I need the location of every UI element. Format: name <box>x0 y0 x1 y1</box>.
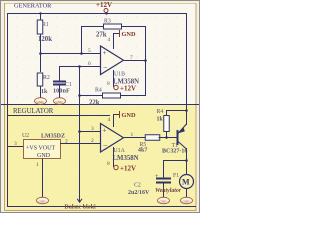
svg-text:U2: U2 <box>22 133 29 139</box>
svg-text:1: 1 <box>131 132 134 138</box>
junction pin3 U1A <box>78 130 81 133</box>
left rail wire <box>7 13 9 206</box>
wire R2 bottom to ground <box>40 86 42 99</box>
wire R6 bottom stub <box>166 132 168 138</box>
svg-text:R4: R4 <box>157 109 164 115</box>
junction R4 left <box>78 94 81 97</box>
svg-text:1k: 1k <box>157 117 164 123</box>
sensor U2 LM35DZ box <box>22 133 65 159</box>
svg-text:+12V: +12V <box>120 165 136 173</box>
U1B +12V power pin wire <box>113 70 115 87</box>
junction R6/+12V rail <box>185 109 188 112</box>
wire +VS pin to left rail <box>7 146 23 148</box>
wire feedback vertical <box>81 26 83 53</box>
svg-text:BC327-16: BC327-16 <box>162 149 187 155</box>
svg-text:REGULATOR: REGULATOR <box>13 108 54 115</box>
svg-text:27k: 27k <box>96 32 107 39</box>
svg-text:M: M <box>182 178 190 187</box>
svg-text:6: 6 <box>88 61 91 67</box>
svg-text:F1: F1 <box>173 173 179 179</box>
svg-text:C2: C2 <box>134 183 141 189</box>
junction output pin7 <box>144 59 147 62</box>
wire output vertical line <box>145 26 147 96</box>
wire pin6 from C1 to opamp <box>59 66 100 68</box>
svg-text:4: 4 <box>108 37 111 43</box>
ground port under motor <box>181 197 193 204</box>
resistor R2 <box>37 73 50 95</box>
svg-text:U1A: U1A <box>114 148 126 154</box>
right +12V rail wire <box>186 13 188 122</box>
+12V top rail wire <box>7 13 187 15</box>
svg-text:GND: GND <box>39 200 46 204</box>
svg-text:R1: R1 <box>42 22 49 28</box>
svg-text:Dalsze bloki: Dalsze bloki <box>65 205 97 211</box>
svg-text:8: 8 <box>107 81 110 87</box>
svg-text:R2: R2 <box>43 75 50 81</box>
svg-text:LM35DZ: LM35DZ <box>41 134 65 140</box>
ground port under C1 <box>54 98 66 105</box>
wire motor to ground <box>186 189 188 198</box>
wire R5 to base <box>159 137 178 139</box>
junction feedback on pin5 wire <box>80 52 83 55</box>
junction base/R6 <box>165 136 168 139</box>
resistor R4 <box>89 88 121 107</box>
wire R1 top <box>40 13 42 20</box>
motor M1 fan <box>155 173 194 194</box>
ground port under C2 <box>158 197 170 204</box>
wire U1A output <box>124 137 145 139</box>
svg-text:+VS VOUT: +VS VOUT <box>26 146 55 152</box>
wire R1 bottom to node <box>40 34 42 73</box>
wire triangle node vertical down <box>79 67 81 202</box>
yellow lower sheet area <box>4 104 197 211</box>
svg-text:3: 3 <box>91 126 94 132</box>
U1A GND power pin wire <box>113 114 119 127</box>
svg-text:22k: 22k <box>89 100 100 107</box>
svg-text:2u2/16V: 2u2/16V <box>128 190 150 196</box>
svg-text:2: 2 <box>65 139 68 145</box>
svg-text:−: − <box>103 141 108 150</box>
power port +12V top <box>96 1 112 15</box>
ground port under R2 <box>35 98 47 105</box>
ground port under U2 <box>37 197 49 204</box>
section divider line <box>1 104 199 106</box>
svg-text:LM358N: LM358N <box>113 155 139 162</box>
wire pin5 from node to opamp <box>40 53 100 55</box>
svg-text:Wentylator: Wentylator <box>155 188 182 194</box>
transistor T1 BC327-16 <box>162 124 187 155</box>
svg-text:100nF: 100nF <box>53 88 70 95</box>
bottom boundary line <box>7 206 196 208</box>
svg-text:GND: GND <box>122 112 136 119</box>
power port +12V U1B <box>114 85 136 93</box>
svg-text:−: − <box>103 64 108 73</box>
resistor R5 <box>138 135 160 154</box>
svg-text:+12V: +12V <box>96 1 112 9</box>
op-amp U1A <box>101 124 139 163</box>
svg-text:R3: R3 <box>104 19 111 25</box>
capacitor C2 polarized <box>128 173 171 197</box>
resistor R3 <box>96 19 122 39</box>
U1B GND power pin wire <box>113 33 119 49</box>
sheet outer border <box>1 1 200 213</box>
power port GND U1B <box>120 30 136 38</box>
svg-text:R4: R4 <box>95 88 102 94</box>
junction at rail <box>39 12 41 14</box>
U1A +12V power pin wire <box>113 147 115 167</box>
wire U2 GND down <box>42 159 44 199</box>
junction node R1/R2/pin5 <box>39 52 42 55</box>
wire emitter to rail <box>186 121 188 125</box>
sheet background <box>0 0 200 213</box>
svg-text:GND: GND <box>37 100 44 104</box>
resistor R1 <box>37 20 52 43</box>
sheet inner border <box>4 3 197 211</box>
wire C2 top <box>163 160 187 178</box>
svg-text:+12V: +12V <box>120 85 136 93</box>
svg-text:GND: GND <box>122 31 136 38</box>
wire R6 top to +12V rail <box>166 110 187 116</box>
svg-text:3: 3 <box>14 141 17 147</box>
wire VOUT to opamp pin2 <box>60 143 100 145</box>
wire feedback top to R3 <box>81 26 103 28</box>
junction C2 tap <box>185 159 188 162</box>
wire pin3 to opamp <box>80 131 101 133</box>
svg-text:1: 1 <box>36 162 39 168</box>
wire R3 right to output line <box>122 26 147 28</box>
svg-text:4k7: 4k7 <box>138 148 147 154</box>
svg-text:GENERATOR: GENERATOR <box>14 3 52 10</box>
power port +12V U1A <box>114 165 136 173</box>
capacitor C1 <box>53 66 72 98</box>
svg-text:4: 4 <box>108 117 111 123</box>
inner border line <box>4 3 197 211</box>
op-amp U1B <box>101 46 140 86</box>
wire output pin7 <box>124 60 146 62</box>
regulator top partial line <box>7 115 110 117</box>
junction pin6/vertical <box>78 65 81 68</box>
svg-text:GND: GND <box>160 200 167 204</box>
svg-text:2: 2 <box>91 138 94 144</box>
svg-text:GND: GND <box>37 153 51 159</box>
power port GND U1A <box>120 111 136 119</box>
svg-text:5: 5 <box>88 48 91 54</box>
svg-text:GND: GND <box>183 200 190 204</box>
svg-text:+: + <box>103 127 107 135</box>
svg-text:8: 8 <box>107 161 110 167</box>
svg-text:GND: GND <box>56 100 63 104</box>
resistor R6 <box>157 109 170 132</box>
wire R4 left segment <box>80 95 103 97</box>
svg-text:1k: 1k <box>41 89 48 95</box>
off-page arrow Dalsze bloki <box>65 199 97 211</box>
wire collector down to motor <box>186 148 188 175</box>
svg-text:+: + <box>103 49 107 57</box>
wire R4 right to output line <box>121 95 147 97</box>
svg-text:U1B: U1B <box>114 72 125 78</box>
